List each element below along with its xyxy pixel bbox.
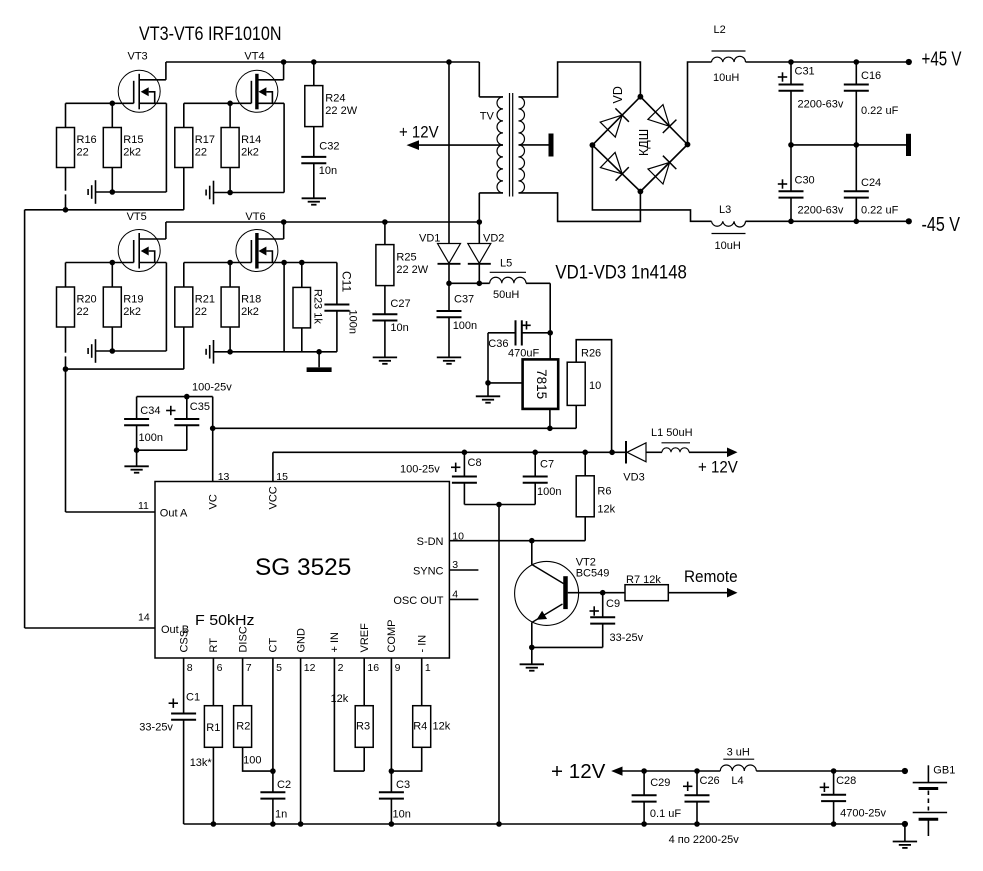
svg-text:14: 14 [138,612,150,624]
svg-text:C1: C1 [186,692,200,704]
resistor R14 [221,101,261,196]
ground (C34) [124,466,148,472]
capacitor C36 [488,320,550,359]
wire VCC rail [273,450,626,476]
svg-text:CT: CT [268,638,280,653]
svg-text:R16: R16 [77,134,97,146]
wire VT5 source down [165,263,167,352]
svg-text:+ 12V: + 12V [399,124,439,142]
wire Out B rail (pin 14 to R16/R17) [25,207,184,628]
svg-text:R21: R21 [195,294,215,306]
svg-text:OSC OUT: OSC OUT [393,595,443,607]
wire Out A rail (pin 11 to R20/R21) [63,366,184,512]
ground (7815) [476,396,500,402]
svg-text:10: 10 [589,380,601,392]
svg-text:50uH: 50uH [493,289,519,301]
resistor R3 [331,658,374,771]
svg-text:VT5: VT5 [127,211,147,223]
svg-text:1: 1 [425,662,431,674]
resistor R19 [103,260,143,354]
diode VD1 [419,62,461,286]
resistor R25 [376,219,429,285]
svg-text:R15: R15 [123,134,143,146]
capacitor C16 [844,62,899,145]
svg-text:C11: C11 [340,271,354,292]
svg-text:2200-63v: 2200-63v [798,99,844,111]
svg-text:13k*: 13k* [190,757,213,769]
wire VT5 gate row [66,262,134,264]
wire C7/C8 common down to ground rail [498,505,500,825]
wire pin 2 to R3 bottom [334,658,364,771]
transistor VT4 [236,51,284,113]
svg-text:7815: 7815 [534,369,549,399]
svg-text:GB1: GB1 [933,765,955,777]
svg-text:SYNC: SYNC [413,566,444,578]
capacitor C31 [778,62,844,145]
resistor R17 [175,103,215,210]
svg-text:33-25v: 33-25v [139,722,173,734]
svg-text:L2: L2 [714,24,726,36]
svg-text:C37: C37 [454,294,474,306]
svg-text:R20: R20 [77,294,97,306]
capacitor C2 [260,658,291,827]
svg-text:22: 22 [195,147,207,159]
transistor VT6 [236,211,284,272]
svg-text:L4: L4 [731,775,743,787]
ground (thick bar below R23/C11) [307,349,332,370]
wire 7815 output [547,409,553,431]
ground (C27) [373,357,397,363]
svg-text:2k2: 2k2 [123,306,141,318]
svg-text:22: 22 [77,147,89,159]
svg-text:C28: C28 [836,775,856,787]
wire bottom +12V rail [551,761,908,783]
wire pin 3 SYNC stub [449,569,478,571]
svg-text:100-25v: 100-25v [192,382,232,394]
transformer TV [479,62,524,222]
svg-text:10uH: 10uH [715,240,741,252]
svg-text:C24: C24 [861,177,881,189]
wire VT2 base to R7 [568,590,625,596]
svg-text:C7: C7 [540,459,554,471]
wire VT6 gate row [184,262,252,264]
wire +12V out arrow (top) [689,448,738,477]
svg-text:GND: GND [295,628,307,653]
svg-text:- IN: - IN [417,635,429,653]
svg-text:C27: C27 [390,298,410,310]
capacitor C8 [452,452,482,504]
transistor VT2 [515,541,610,648]
svg-text:VT4: VT4 [244,51,264,63]
resistor R20 [57,263,97,370]
svg-text:Out A: Out A [160,508,188,520]
svg-text:Remote: Remote [684,568,738,586]
wire L5 to 7815 input [526,283,553,359]
wire +45V rail [746,48,962,70]
resistor R24 [305,59,358,126]
ground (VT3 source row) [88,180,166,204]
svg-text:C35: C35 [190,401,210,413]
transistor VT5 [118,211,166,272]
capacitor C34 [124,397,163,453]
capacitor C9 [590,593,644,648]
capacitor C1 [139,658,200,824]
resistor R23 [293,263,323,352]
svg-text:VD1: VD1 [419,233,440,245]
capacitor C37 [437,283,478,357]
svg-text:+ 12V: + 12V [698,459,738,477]
wire VT4 gate row [184,102,252,104]
svg-text:S-DN: S-DN [417,536,444,548]
svg-text:SG 3525: SG 3525 [255,554,351,581]
svg-text:10n: 10n [390,322,408,334]
svg-text:C9: C9 [606,598,620,610]
svg-text:C2: C2 [277,779,291,791]
svg-text:10n: 10n [393,809,411,821]
svg-text:КДШ: КДШ [637,129,651,156]
capacitor C3 [379,658,411,827]
svg-text:5: 5 [276,662,282,674]
resistor R1 [190,658,223,827]
svg-text:+ 12V: + 12V [551,761,606,783]
resistor R6 [576,452,615,540]
svg-text:6: 6 [217,662,223,674]
wire pin 4 OSC OUT stub [449,598,478,600]
inductor L3 [712,204,746,252]
capacitor C30 [778,145,844,221]
svg-text:VD: VD [611,86,625,103]
svg-text:VD1-VD3 1n4148: VD1-VD3 1n4148 [555,263,687,284]
svg-text:8: 8 [187,662,193,674]
svg-text:VREF: VREF [359,623,371,653]
svg-text:22: 22 [195,306,207,318]
ground (VT4 source row) [206,181,284,205]
svg-text:R4: R4 [413,721,427,733]
svg-text:R19: R19 [123,294,143,306]
svg-text:C29: C29 [650,777,670,789]
ground (main rail right end) [893,824,917,848]
svg-text:100n: 100n [139,432,163,444]
svg-text:100: 100 [243,755,261,767]
wire Remote arrow [668,568,737,598]
svg-text:22 2W: 22 2W [325,105,357,117]
wire VT3 gate row [66,102,134,104]
svg-text:0.22 uF: 0.22 uF [861,205,899,217]
svg-text:TV: TV [480,111,495,123]
ground (C32) [302,198,326,204]
wire TV secondary top to bridge [519,62,641,97]
svg-text:VD3: VD3 [623,472,644,484]
inductor L1 [651,427,693,452]
inductor L2 [712,24,746,84]
diode VD3 [623,441,662,484]
wire VC rail (7815 output to pin 13) [210,397,576,482]
svg-text:22 2W: 22 2W [396,264,428,276]
bridge rectifier VD (KD213) [590,86,691,194]
svg-text:33-25v: 33-25v [610,632,644,644]
svg-text:C8: C8 [468,457,482,469]
battery GB1 [913,765,956,837]
svg-text:R7 12k: R7 12k [626,574,661,586]
voltage regulator 7815 [523,359,559,409]
wire VD1/VD2 cathodes to L5 [449,282,490,284]
svg-text:L3: L3 [719,204,731,216]
svg-text:COMP: COMP [386,620,398,653]
diode VD2 [468,222,505,286]
wire C34/C35 bottom to ground [137,450,187,466]
svg-text:470uF: 470uF [508,347,539,359]
svg-text:2k2: 2k2 [241,306,259,318]
IC U1 SG3525 [155,482,449,659]
wire top drain rail [166,59,479,65]
svg-text:100n: 100n [453,320,477,332]
svg-text:BC549: BC549 [576,568,610,580]
svg-text:22: 22 [77,306,89,318]
wire VT4 source down [283,103,285,192]
svg-text:VT3-VT6 IRF1010N: VT3-VT6 IRF1010N [139,24,282,45]
wire C8/C7 bottoms [464,502,535,508]
svg-text:4 по 2200-25v: 4 по 2200-25v [669,834,740,846]
svg-text:CSS: CSS [178,630,190,653]
svg-text:100n: 100n [537,486,561,498]
wire pin 15 VCC up [272,452,274,481]
svg-text:12k: 12k [331,693,349,705]
svg-text:12k: 12k [597,504,615,516]
inductor L5 [490,258,526,302]
svg-text:R14: R14 [241,134,261,146]
svg-text:+ IN: + IN [329,632,341,653]
wire -45V rail [746,214,961,236]
capacitor C26 [683,771,720,824]
wire main ground rail [184,821,908,827]
svg-text:VD2: VD2 [483,233,504,245]
svg-text:12: 12 [304,662,316,674]
transistor VT3 [118,51,166,113]
wire mid rail to chassis bar [788,134,908,156]
svg-text:0.1 uF: 0.1 uF [650,808,681,820]
svg-text:C32: C32 [319,141,339,153]
svg-text:+45 V: +45 V [922,48,962,70]
inductor L4 [720,747,756,788]
wire VT3 source down [165,103,167,192]
resistor R16 [57,103,97,210]
svg-text:7: 7 [246,662,252,674]
wire C34/C35 top row [137,382,233,400]
svg-text:-45 V: -45 V [922,214,961,236]
svg-text:VT3: VT3 [128,51,148,63]
resistor R15 [103,101,143,195]
svg-text:1n: 1n [275,809,287,821]
svg-text:15: 15 [276,471,288,483]
resistor R2 [234,658,273,771]
ground (VT5 source row) [88,339,166,363]
capacitor C7 [523,452,562,504]
wire VT6 drain up [281,219,287,239]
wire TV secondary centre tap to common bar [519,134,552,157]
wire VT3 drain to top rail [165,62,167,80]
svg-text:C31: C31 [795,66,815,78]
svg-text:R3: R3 [356,721,370,733]
svg-text:2200-63v: 2200-63v [798,205,844,217]
svg-text:12k: 12k [433,721,451,733]
svg-text:0.22 uF: 0.22 uF [861,105,899,117]
capacitor C24 [844,145,899,221]
svg-text:L5: L5 [500,258,512,270]
ground (VT2) [520,664,544,670]
wire pin 10 S-DN [449,538,585,544]
svg-text:10uH: 10uH [713,72,739,84]
resistor R7 [625,574,668,601]
svg-text:100n: 100n [347,310,359,334]
resistor R26 [567,340,611,453]
resistor R21 [175,263,215,370]
svg-text:9: 9 [395,662,401,674]
svg-text:L1 50uH: L1 50uH [651,427,693,439]
capacitor C29 [632,771,682,824]
capacitor C35 [166,397,210,451]
wire VT6 source row to R23/C11 [281,260,337,352]
svg-text:16: 16 [367,662,379,674]
wire TV secondary bottom to bridge [519,192,641,222]
svg-text:R17: R17 [195,134,215,146]
wire +12V feed to TV primary centre tap [399,124,503,151]
capacitor C27 [372,286,410,358]
svg-text:2: 2 [338,662,344,674]
resistor R18 [221,260,261,355]
svg-text:2k2: 2k2 [241,147,259,159]
wire 7815 ground pin [485,333,522,397]
wire VT2 emitter row [529,645,603,665]
wire lower drain rail [166,219,482,225]
capacitor C32 [301,127,339,199]
capacitor C28 [820,771,887,824]
svg-text:10n: 10n [319,165,337,177]
svg-text:R23 1k: R23 1k [311,289,323,324]
capacitor C11 [324,263,358,352]
svg-text:4700-25v: 4700-25v [840,808,886,820]
wire pin 12 GND [298,658,304,827]
svg-text:R6: R6 [597,486,611,498]
svg-text:C16: C16 [861,70,881,82]
svg-text:R24: R24 [325,92,345,104]
svg-text:3 uH: 3 uH [727,747,750,759]
pin number labels [138,471,464,674]
wire VT4 drain to top rail [281,59,287,80]
svg-text:C3: C3 [396,779,410,791]
svg-text:VCC: VCC [268,486,280,509]
svg-text:100-25v: 100-25v [400,464,440,476]
svg-text:R26: R26 [581,348,601,360]
wire bridge minus to L3 [592,145,711,221]
svg-text:11: 11 [138,500,149,512]
ground (C37) [437,357,461,363]
ground (VT6 source row) [206,340,337,364]
resistor R4 [391,658,450,771]
wire VT5 drain up [165,222,167,239]
svg-text:C30: C30 [795,175,815,187]
svg-text:C36: C36 [488,338,508,350]
svg-text:C34: C34 [140,405,160,417]
svg-text:R25: R25 [396,251,416,263]
svg-text:R1: R1 [206,722,220,734]
svg-text:C26: C26 [700,775,720,787]
svg-text:DISC: DISC [237,626,249,652]
svg-text:VC: VC [207,494,219,509]
svg-text:R2: R2 [236,721,250,733]
svg-text:13: 13 [218,471,230,483]
svg-text:RT: RT [208,638,220,653]
wire bridge plus to L2 [688,62,712,145]
svg-text:R18: R18 [241,294,261,306]
svg-text:2k2: 2k2 [123,147,141,159]
